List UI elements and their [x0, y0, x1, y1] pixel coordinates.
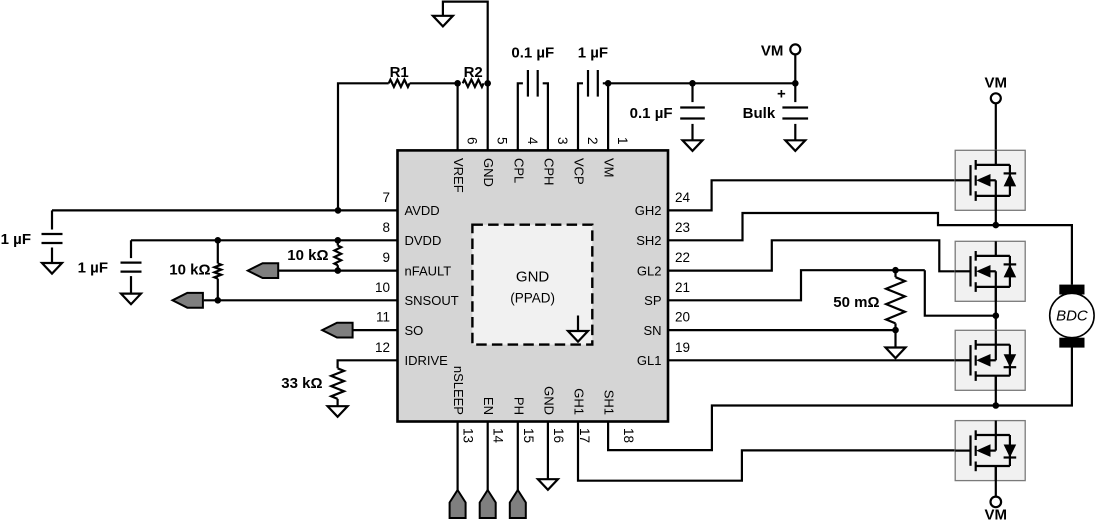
wire Q1 to SH2 node	[995, 196, 997, 225]
label 10 kOhm SNSOUT	[169, 262, 210, 279]
svg-text:nFAULT: nFAULT	[405, 263, 452, 278]
label VM supply	[761, 43, 784, 60]
svg-text:VM: VM	[985, 75, 1008, 92]
wire SN pin 20	[668, 329, 896, 331]
svg-text:1 µF: 1 µF	[578, 45, 608, 62]
wire DVDD cap to ground	[130, 276, 132, 294]
terminal arrow PH	[510, 490, 526, 518]
svg-text:SNSOUT: SNSOUT	[405, 293, 459, 308]
wire EN pin 14	[487, 422, 489, 491]
ground VM bypass	[683, 140, 703, 151]
label VM top	[985, 75, 1008, 92]
label R2	[464, 64, 483, 81]
svg-text:SN: SN	[643, 323, 661, 338]
svg-text:VREF: VREF	[451, 158, 466, 193]
resistor 33k IDRIVE	[331, 368, 344, 399]
wire GND pin 16	[547, 422, 549, 480]
svg-text:+: +	[777, 85, 786, 102]
label bulk plus sign	[777, 85, 786, 102]
svg-text:3: 3	[555, 137, 570, 145]
svg-text:0.1 µF: 0.1 µF	[511, 45, 554, 62]
svg-text:BDC: BDC	[1056, 308, 1088, 325]
wire SH2 node to motor	[996, 225, 1072, 285]
svg-text:50 mΩ: 50 mΩ	[833, 294, 879, 311]
svg-text:15: 15	[521, 428, 536, 443]
label 0.1 uF bypass	[630, 105, 673, 122]
svg-text:VM: VM	[985, 507, 1008, 524]
wire AVDD cap to ground	[51, 248, 53, 264]
capacitor 1uF DVDD	[121, 263, 142, 272]
svg-text:GH2: GH2	[635, 203, 662, 218]
svg-text:1: 1	[615, 137, 630, 145]
svg-text:GND: GND	[481, 158, 496, 187]
terminal arrow SO	[322, 323, 352, 338]
svg-text:13: 13	[461, 428, 476, 443]
svg-text:nSLEEP: nSLEEP	[451, 366, 466, 415]
wire GL1 pin 19	[668, 359, 971, 361]
svg-text:CPH: CPH	[541, 158, 556, 185]
motor BDC body	[1050, 293, 1094, 337]
svg-text:9: 9	[382, 250, 390, 265]
wire AVDD riser to R1	[338, 83, 389, 210]
wire DVDD pin 8	[131, 239, 398, 241]
svg-text:10 kΩ: 10 kΩ	[287, 247, 328, 264]
label 50 mOhm	[833, 294, 879, 311]
svg-text:IDRIVE: IDRIVE	[405, 353, 449, 368]
node DVDD 10k right dot	[335, 237, 342, 244]
resistor 10k nFAULT pull-up	[334, 240, 341, 270]
wire IDRIVE pin 12	[338, 360, 398, 368]
svg-text:16: 16	[551, 428, 566, 443]
svg-text:VM: VM	[761, 43, 784, 60]
svg-text:EN: EN	[481, 397, 496, 415]
transistor Q2 low-side GL2	[955, 241, 1025, 301]
wire bulk cap stub	[794, 83, 796, 102]
wire SNSOUT pin 10	[204, 299, 398, 301]
wire AVDD cap stub	[51, 210, 53, 229]
wire SP node to Q3 source	[995, 316, 997, 345]
wire VM bypass cap stub	[691, 83, 693, 102]
svg-text:7: 7	[382, 190, 390, 205]
resistor R2	[463, 80, 484, 87]
wire AVDD pin 7	[52, 209, 398, 211]
op-amp U1 gate-driver IC body	[398, 150, 669, 421]
ground pin 16	[538, 479, 558, 490]
terminal arrow SNSOUT	[173, 293, 203, 308]
node nFAULT dot	[335, 267, 342, 274]
node VM top terminal	[991, 93, 1001, 103]
terminal arrow nSLEEP	[450, 490, 466, 518]
wire bulk cap to ground	[794, 124, 796, 140]
wire VM top terminal stub	[995, 103, 997, 165]
wire pin 6 VREF riser	[457, 83, 459, 150]
resistor R1	[389, 80, 410, 87]
node VM pin junction dot	[605, 80, 612, 87]
transistor Q3 low-side GL1	[955, 330, 1025, 390]
svg-text:33 kΩ: 33 kΩ	[281, 375, 322, 392]
wire 33k to ground	[337, 399, 339, 406]
wire VM bypass to ground	[691, 124, 693, 140]
wire DVDD cap stub	[130, 240, 132, 258]
svg-text:VCP: VCP	[572, 158, 587, 185]
wire GL2 pin 22 route	[668, 240, 971, 271]
wire Q3 drain to SH1 node	[995, 376, 997, 406]
label Bulk	[743, 105, 776, 122]
motor BDC brush bottom	[1059, 338, 1084, 348]
capacitor 0.1uF CPL-CPH	[528, 70, 538, 97]
node GND junction dot	[484, 80, 491, 87]
node SH1 junction dot	[993, 402, 1000, 409]
capacitor 1uF AVDD	[42, 234, 63, 243]
wire pin 1 VM riser	[603, 83, 608, 150]
ground top GND	[433, 16, 453, 27]
node VM bypass junction dot	[689, 80, 696, 87]
node 50m top dot	[892, 267, 899, 274]
svg-text:GL1: GL1	[637, 353, 662, 368]
svg-text:R2: R2	[464, 64, 483, 81]
ground DVDD cap	[121, 294, 141, 305]
wire SH1 pin 18 route	[608, 406, 996, 451]
svg-text:23: 23	[675, 220, 690, 235]
svg-text:24: 24	[675, 190, 691, 205]
svg-text:1 µF: 1 µF	[1, 231, 31, 248]
label 33 kOhm	[281, 375, 322, 392]
svg-text:Bulk: Bulk	[743, 105, 776, 122]
ground 50m shunt	[886, 348, 906, 359]
terminal arrow nFAULT	[248, 263, 278, 278]
node SP junction dot	[993, 312, 1000, 319]
pin names	[405, 158, 662, 415]
transistor Q1 high-side GH2	[955, 150, 1025, 210]
node AVDD junction dot	[335, 207, 342, 214]
svg-text:21: 21	[675, 280, 690, 295]
svg-text:18: 18	[621, 428, 636, 443]
svg-text:DVDD: DVDD	[405, 233, 442, 248]
wire SH2 pin 23 route	[668, 213, 996, 240]
svg-text:22: 22	[675, 250, 690, 265]
transistor Q4 high-side GH1	[955, 421, 1025, 481]
wire PH pin 15	[517, 422, 519, 491]
terminal arrow EN	[480, 490, 496, 518]
svg-text:11: 11	[376, 310, 390, 325]
svg-text:8: 8	[382, 220, 390, 235]
svg-text:4: 4	[525, 137, 540, 145]
wire GH1 pin 17 route	[578, 422, 971, 481]
label VM bottom	[985, 507, 1008, 524]
svg-text:2: 2	[585, 137, 600, 145]
wire nSLEEP pin 13	[457, 422, 459, 491]
wire GH2 pin 24 route	[668, 180, 971, 210]
ground AVDD cap	[42, 263, 62, 274]
capacitor Bulk electrolytic	[782, 108, 808, 119]
wire SP to low-side sources	[925, 270, 996, 316]
wire Q2 source to SP node	[995, 287, 997, 316]
label 0.1 uF flying cap	[511, 45, 554, 62]
wire pin 5 GND riser to top ground	[443, 2, 488, 151]
wire pin 2 VCP riser	[578, 83, 583, 150]
wire 50m to ground	[894, 330, 896, 347]
node VM bottom terminal	[991, 497, 1002, 508]
wire SP pin 21 route	[668, 270, 925, 300]
label 1 uF AVDD	[1, 231, 31, 248]
node DVDD 10k left dot	[215, 237, 222, 244]
svg-text:17: 17	[577, 428, 592, 443]
svg-text:R1: R1	[390, 64, 409, 81]
svg-text:GL2: GL2	[637, 263, 662, 278]
wire nFAULT pin 9	[278, 270, 397, 272]
svg-text:SH2: SH2	[636, 233, 661, 248]
wire VM rail	[608, 82, 795, 84]
node VM bulk junction dot	[792, 80, 799, 87]
ground PPAD	[568, 316, 588, 342]
svg-text:19: 19	[675, 340, 690, 355]
svg-text:SO: SO	[405, 323, 424, 338]
resistor 50 mOhm shunt	[886, 270, 905, 330]
svg-text:VM: VM	[602, 158, 617, 178]
pin numbers left 7-12 / right 24-19	[375, 190, 691, 355]
svg-text:14: 14	[491, 428, 506, 444]
capacitor 1uF VCP-VM	[588, 70, 598, 97]
wire SH1 node to motor	[996, 348, 1072, 406]
wire VM terminal stub	[794, 54, 796, 83]
ground bulk cap	[785, 140, 805, 151]
svg-text:GND: GND	[516, 269, 550, 286]
svg-text:6: 6	[465, 137, 480, 145]
node GND (PPAD) thermal pad box	[472, 225, 592, 345]
svg-text:CPL: CPL	[511, 158, 526, 183]
label 1 uF flying cap	[578, 45, 608, 62]
wire Q4 drain to VM bottom	[995, 466, 997, 496]
wire R1 to VREF node	[410, 82, 458, 84]
ground 33k	[328, 406, 348, 417]
resistor 10k SNSOUT pull-up	[214, 240, 221, 300]
node SNSOUT dot	[215, 297, 222, 304]
wire SO pin 11	[354, 329, 398, 331]
capacitor 0.1uF VM bypass	[680, 108, 705, 119]
svg-text:10: 10	[375, 280, 390, 295]
svg-text:10 kΩ: 10 kΩ	[169, 262, 210, 279]
node SH2 junction dot	[993, 222, 1000, 229]
svg-text:20: 20	[675, 310, 690, 325]
svg-text:GH1: GH1	[572, 388, 587, 415]
svg-text:12: 12	[375, 340, 390, 355]
svg-text:(PPAD): (PPAD)	[510, 291, 555, 306]
svg-text:1 µF: 1 µF	[78, 259, 108, 276]
label R1	[390, 64, 409, 81]
svg-text:AVDD: AVDD	[405, 203, 440, 218]
svg-text:SP: SP	[644, 293, 661, 308]
wire pin 3 CPH riser	[543, 83, 548, 150]
motor BDC brush top	[1059, 285, 1084, 295]
pin numbers top 6-1 / bottom 13-18	[461, 137, 636, 444]
svg-text:GND: GND	[541, 386, 556, 415]
svg-text:0.1 µF: 0.1 µF	[630, 105, 673, 122]
label 1 uF DVDD	[78, 259, 108, 276]
wire pin 4 CPL riser	[518, 83, 523, 150]
svg-text:SH1: SH1	[602, 390, 617, 415]
svg-text:5: 5	[495, 137, 510, 145]
svg-text:PH: PH	[511, 397, 526, 415]
node VM supply terminal	[790, 44, 800, 54]
node VREF junction dot	[454, 80, 461, 87]
label 10 kOhm nFAULT	[287, 247, 328, 264]
node 50m bottom dot	[892, 327, 899, 334]
